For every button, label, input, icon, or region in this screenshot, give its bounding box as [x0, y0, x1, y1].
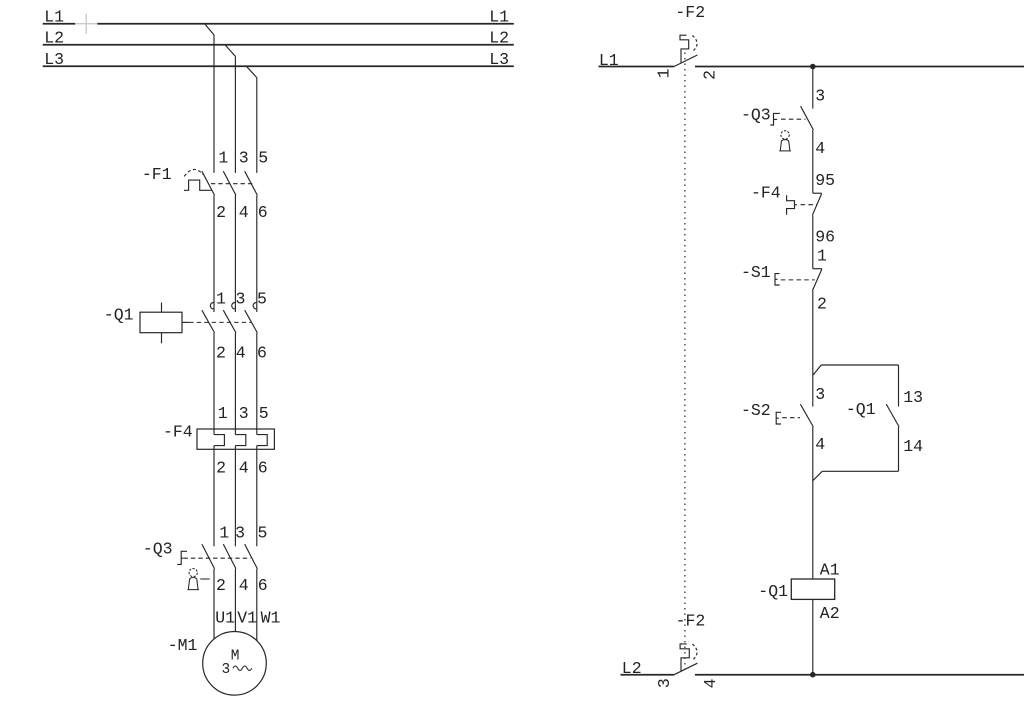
breaker F1 pole 1 contact blade	[202, 171, 215, 195]
switch Q3 aux label	[741, 106, 771, 125]
junction node on L1	[810, 64, 816, 70]
contactor Q1 pole 3 terminal 5	[257, 290, 267, 309]
wire tap from L3	[246, 66, 256, 77]
pushbutton S1 NC contact	[813, 269, 822, 291]
svg-text:3: 3	[815, 385, 825, 404]
net label L2 (right end)	[489, 29, 509, 48]
svg-text:6: 6	[258, 203, 268, 222]
overload F4 pole 2 terminal 3	[239, 404, 249, 423]
overload F4 NC label	[751, 184, 781, 203]
switch Q3 pole 2 terminal 4	[239, 576, 249, 595]
breaker F2 terminal 4	[701, 678, 720, 688]
overload F4 NC contact	[812, 193, 821, 215]
contactor Q1 box tick bottom	[161, 333, 163, 344]
coil Q1 label	[758, 582, 788, 601]
motor M1 circle	[203, 632, 267, 696]
svg-text:-F4: -F4	[751, 184, 781, 203]
breaker F2 terminal 3	[655, 678, 674, 688]
net label L1 (control)	[599, 51, 619, 70]
svg-text:4: 4	[236, 343, 246, 362]
wire L2 control left	[621, 674, 675, 676]
svg-text:4: 4	[815, 435, 825, 454]
terminal label 2 (S1)	[817, 294, 827, 313]
wire -Q3 aux to -F4 NC	[812, 130, 814, 193]
wire tap from L1	[205, 24, 214, 35]
wire -Q1 aux to branch bottom	[898, 427, 900, 471]
overload F4 NC actuator icon	[787, 195, 797, 215]
switch Q3 pole 2 terminal 3	[235, 523, 245, 542]
svg-text:-M1: -M1	[168, 636, 198, 655]
svg-text:W1: W1	[261, 608, 281, 627]
net label L1 (left end)	[44, 8, 64, 27]
svg-text:4: 4	[815, 139, 825, 158]
branch stub to holding contact (bottom)	[813, 471, 822, 480]
breaker F2 pole 2 blade	[674, 663, 697, 675]
net label L1 (right end)	[489, 8, 509, 27]
wire -F4 NC to -S1	[812, 215, 814, 269]
net label L3 (left end)	[44, 50, 64, 69]
wire phase 2 -F4 to -Q3	[234, 446, 236, 547]
breaker F2 pole 2 thermal hump	[680, 644, 689, 671]
svg-text:2: 2	[216, 343, 226, 362]
wire phase 1 to -F1	[213, 35, 215, 173]
contactor Q1 aux label	[846, 400, 876, 419]
motor M1 3-phase mark	[222, 662, 252, 678]
reference cross mark	[76, 14, 98, 35]
contactor Q1 pole 1 terminal 2	[216, 343, 226, 362]
svg-text:3: 3	[236, 290, 246, 309]
contactor Q1 pole 3 contact arc	[253, 303, 256, 309]
svg-text:4: 4	[239, 459, 249, 478]
wire phase 1 -F1 to -Q1	[213, 195, 215, 312]
svg-text:L1: L1	[489, 8, 509, 27]
contactor Q1 pole 3 terminal 6	[257, 343, 267, 362]
breaker F1 thermal release hump	[184, 180, 211, 190]
overload F4 pole 3 terminal 5	[259, 404, 269, 423]
contactor Q1 pole 2 terminal 4	[236, 343, 246, 362]
breaker F1 pole 2 terminal 3	[239, 149, 249, 168]
overload F4 label	[163, 422, 193, 441]
svg-text:5: 5	[259, 404, 269, 423]
breaker F2 pole 2 release arc	[692, 644, 697, 660]
svg-text:A2: A2	[820, 604, 840, 623]
contactor Q1 linkage	[182, 321, 251, 323]
breaker F1 pole 1 terminal 1	[218, 149, 228, 168]
svg-text:6: 6	[258, 459, 268, 478]
contactor Q1 aux contact blade	[886, 404, 899, 427]
pushbutton S2 actuator icon	[776, 412, 781, 424]
motor terminal label U1	[215, 608, 235, 627]
svg-text:-Q3: -Q3	[741, 106, 771, 125]
svg-text:1: 1	[216, 290, 226, 309]
svg-text:U1: U1	[215, 608, 235, 627]
breaker F1 thermal release arc	[184, 169, 203, 176]
wire branch to -Q1 aux	[898, 365, 900, 407]
svg-text:2: 2	[701, 70, 720, 80]
breaker F1 linkage	[211, 183, 252, 185]
svg-text:4: 4	[239, 203, 249, 222]
svg-text:5: 5	[257, 290, 267, 309]
svg-text:4: 4	[239, 576, 249, 595]
switch Q3 pole 3 terminal 5	[258, 523, 268, 542]
svg-text:6: 6	[258, 576, 268, 595]
overload F4 pole 1 heater element	[214, 435, 224, 446]
terminal label 3 (S2)	[815, 385, 825, 404]
pushbutton S1 label	[741, 263, 771, 282]
terminal label 95	[815, 171, 835, 190]
terminal label A2	[820, 604, 840, 623]
svg-text:-S2: -S2	[741, 401, 771, 420]
switch Q3 aux contact blade	[801, 106, 814, 130]
terminal label 14	[903, 437, 923, 456]
switch Q3 operator person icon	[187, 569, 199, 590]
overload F4 box	[197, 429, 274, 449]
contactor Q1 pole 2 terminal 3	[236, 290, 246, 309]
svg-text:-S1: -S1	[741, 263, 771, 282]
wire L1 to -Q3 aux	[812, 67, 814, 109]
switch Q3 label	[143, 540, 173, 559]
net label L3 (right end)	[489, 50, 509, 69]
switch Q3 pole 2 contact blade	[223, 544, 236, 569]
wire L1 control right	[695, 66, 1024, 68]
switch Q3 linkage	[184, 557, 251, 559]
svg-text:V1: V1	[237, 608, 257, 627]
breaker F2 mechanical linkage (dotted)	[684, 53, 686, 671]
svg-text:-F2: -F2	[676, 611, 706, 630]
pushbutton S1 actuator icon	[775, 274, 780, 285]
terminal label 3 (Q3 aux)	[815, 87, 825, 106]
svg-text:4: 4	[701, 678, 720, 688]
pushbutton S1 linkage	[781, 279, 815, 281]
wire -S2 to coil	[812, 427, 814, 579]
svg-text:-Q3: -Q3	[143, 540, 173, 559]
svg-text:3: 3	[222, 662, 231, 678]
wire phase 3 -F1 to -Q1	[256, 195, 258, 312]
svg-text:-F2: -F2	[675, 3, 705, 22]
svg-text:13: 13	[903, 388, 923, 407]
wire tap from L2	[225, 45, 235, 57]
svg-text:3: 3	[235, 523, 245, 542]
breaker F2 pole 1 thermal hump	[680, 35, 689, 62]
contactor Q1 pole 2 contact arc	[232, 303, 235, 309]
breaker F1 pole 2 contact blade	[223, 171, 236, 195]
svg-text:3: 3	[815, 87, 825, 106]
wire -S1 to -S2	[812, 291, 814, 407]
svg-text:2: 2	[216, 576, 226, 595]
svg-text:2: 2	[216, 459, 226, 478]
svg-text:1: 1	[817, 246, 827, 265]
switch Q3 pole 3 contact blade	[245, 544, 258, 569]
breaker F1 pole 3 contact blade	[245, 171, 258, 195]
contactor Q1 operator box	[140, 312, 182, 333]
svg-text:-Q1: -Q1	[846, 400, 876, 419]
switch Q3 operator link dash	[200, 578, 210, 580]
svg-text:L2: L2	[489, 29, 509, 48]
svg-text:1: 1	[654, 68, 673, 78]
svg-text:-F1: -F1	[142, 165, 172, 184]
wire phase 2 to -F1	[234, 56, 236, 172]
breaker F1 pole 3 terminal 5	[258, 149, 268, 168]
terminal label 96	[815, 228, 835, 247]
svg-text:-Q1: -Q1	[758, 582, 788, 601]
svg-text:5: 5	[258, 149, 268, 168]
overload F4 pole 1 terminal 1	[218, 404, 228, 423]
svg-text:A1: A1	[820, 561, 840, 580]
svg-text:3: 3	[655, 678, 674, 688]
svg-text:3: 3	[239, 404, 249, 423]
breaker F2 label (top)	[675, 3, 705, 22]
breaker F2 pole 1 blade	[674, 55, 697, 67]
svg-text:-Q1: -Q1	[104, 305, 134, 324]
svg-text:2: 2	[817, 294, 827, 313]
wire branch bottom	[822, 470, 898, 472]
motor M1 letter M	[231, 648, 240, 664]
svg-text:3: 3	[239, 149, 249, 168]
wire phase 3 to -F1	[256, 78, 258, 173]
wire coil to L2	[812, 599, 814, 674]
overload F4 pole 2 terminal 4	[239, 459, 249, 478]
terminal label 4 (S2)	[815, 435, 825, 454]
terminal label A1	[820, 561, 840, 580]
terminal label 4 (Q3 aux)	[815, 139, 825, 158]
svg-text:1: 1	[218, 404, 228, 423]
wire phase 3 -F4 to -Q3	[256, 446, 258, 547]
svg-text:95: 95	[815, 171, 835, 190]
motor terminal label V1	[237, 608, 257, 627]
wire phase 3 -Q3 to motor	[256, 569, 258, 641]
svg-text:6: 6	[257, 343, 267, 362]
wire L1 control left	[599, 66, 675, 68]
contactor Q1 pole 1 terminal 1	[216, 290, 226, 309]
junction node on L2	[810, 672, 816, 678]
svg-text:M: M	[231, 648, 240, 664]
breaker F1 pole 1 terminal 2	[216, 203, 226, 222]
wire phase 1 -Q1 to -F4	[213, 333, 215, 435]
overload F4 NC linkage	[801, 204, 817, 206]
overload F4 pole 3 terminal 6	[258, 459, 268, 478]
svg-text:14: 14	[903, 437, 923, 456]
svg-text:1: 1	[219, 523, 229, 542]
pushbutton S2 label	[741, 401, 771, 420]
svg-text:1: 1	[218, 149, 228, 168]
wire L2 control right	[695, 674, 1024, 676]
breaker F1 pole 2 terminal 4	[239, 203, 249, 222]
switch Q3 aux linkage	[781, 118, 806, 120]
wire phase 1 -Q3 to motor	[213, 569, 215, 639]
wire L2 bus	[43, 44, 514, 46]
contactor Q1 pole 2 contact blade	[223, 310, 236, 333]
contactor Q1 pole 1 contact blade	[202, 310, 215, 333]
breaker F2 label (bottom)	[676, 611, 706, 630]
svg-text:5: 5	[258, 523, 268, 542]
svg-text:96: 96	[815, 228, 835, 247]
contactor Q1 box tick top	[161, 303, 163, 313]
net label L2 (left end)	[44, 29, 64, 48]
pushbutton S2 linkage	[782, 417, 800, 419]
motor terminal label W1	[261, 608, 281, 627]
switch Q3 pole 3 terminal 6	[258, 576, 268, 595]
contactor Q1 pole 3 contact blade	[245, 310, 258, 333]
switch Q3 pole 1 terminal 2	[216, 576, 226, 595]
svg-text:2: 2	[216, 203, 226, 222]
wire phase 1 -F4 to -Q3	[213, 446, 215, 547]
wire phase 3 -Q1 to -F4	[256, 333, 258, 435]
wire phase 2 -Q1 to -F4	[234, 333, 236, 435]
svg-text:L3: L3	[489, 50, 509, 69]
pushbutton S2 NO contact blade	[800, 404, 813, 427]
wire phase 2 -F1 to -Q1	[234, 195, 236, 312]
svg-text:-F4: -F4	[163, 422, 193, 441]
breaker F2 terminal 2	[701, 70, 720, 80]
wire L1 bus	[43, 23, 514, 25]
branch stub to holding contact (top)	[813, 365, 821, 375]
contactor Q1 label	[104, 305, 134, 324]
switch Q3 pole 1 contact blade	[202, 544, 215, 569]
terminal label 1 (S1)	[817, 246, 827, 265]
overload F4 pole 1 terminal 2	[216, 459, 226, 478]
breaker F2 terminal 1	[654, 68, 673, 78]
breaker F1 pole 3 terminal 6	[258, 203, 268, 222]
switch Q3 pole 1 terminal 1	[219, 523, 229, 542]
breaker F2 pole 1 release arc	[692, 35, 697, 51]
switch Q3 actuator icon	[177, 551, 187, 564]
motor M1 label	[168, 636, 198, 655]
breaker F1 label	[142, 165, 172, 184]
switch Q3 aux actuator icon	[770, 113, 780, 125]
switch Q3 aux operator person icon	[779, 131, 791, 151]
wire branch top	[821, 364, 898, 366]
wire L3 bus	[43, 65, 514, 67]
overload F4 pole 2 heater element	[235, 435, 245, 446]
net label L2 (control)	[622, 659, 642, 678]
overload F4 pole 3 heater element	[257, 435, 267, 446]
terminal label 13	[903, 388, 923, 407]
coil Q1 box	[791, 579, 834, 599]
contactor Q1 pole 1 contact arc	[210, 303, 213, 309]
wire phase 2 -Q3 to motor	[234, 569, 236, 632]
